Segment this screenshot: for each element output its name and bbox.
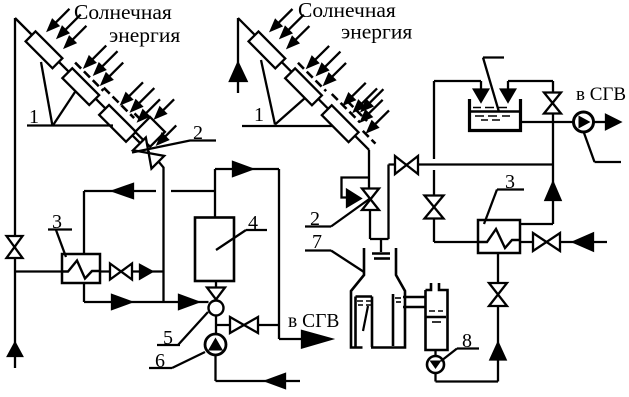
wire: pump outlet bbox=[593, 121, 607, 123]
valve (on y=164.5) bbox=[395, 156, 418, 174]
solar collector 1 (right) bbox=[232, 0, 407, 156]
svg-text:энергия: энергия bbox=[341, 20, 412, 44]
arrow to СГВ (left) bbox=[302, 331, 331, 348]
wire: open tank left feed (x=434) bbox=[434, 81, 481, 242]
glazing dashes bbox=[297, 57, 383, 144]
label: Солнечная энергия (left) bbox=[74, 0, 180, 47]
tank 7 (storage boiler) bbox=[351, 248, 405, 348]
svg-text:3: 3 bbox=[505, 171, 515, 193]
collector axis line bbox=[15, 18, 149, 152]
collector panel a bbox=[249, 32, 286, 69]
arrow up (left riser bottom) bbox=[8, 343, 22, 356]
svg-text:3: 3 bbox=[52, 211, 62, 233]
open expansion tank (top right) bbox=[470, 99, 521, 131]
wire: tank 8 to pump 8 bbox=[434, 350, 436, 356]
water marks tank 7 bbox=[357, 298, 401, 305]
ground line 1 (left) bbox=[27, 62, 113, 126]
svg-text:6: 6 bbox=[155, 350, 165, 372]
thermostatic valve 2 (right) : actuator box bbox=[342, 178, 371, 207]
collector panel b bbox=[285, 68, 322, 105]
wire: pump suction return (diagonal) bbox=[584, 132, 622, 163]
svg-text:в СГВ: в СГВ bbox=[288, 311, 339, 332]
label 5 with pointer bbox=[157, 312, 208, 349]
valve (riser x=553) bbox=[544, 93, 561, 114]
wire: HX outlet right bbox=[100, 270, 164, 272]
arrow to СГВ (right) bbox=[606, 115, 620, 129]
flow arrow right (y=169) bbox=[233, 162, 252, 176]
heat exchanger 3 (left) bbox=[62, 254, 100, 283]
flow arrow left (on y=191) bbox=[113, 184, 133, 198]
label 3 (right) with pointer bbox=[484, 171, 524, 224]
ground line 1 (right) bbox=[242, 60, 333, 126]
wire: pump 6 return line bbox=[216, 355, 301, 381]
solar collector 1 (left) bbox=[8, 0, 198, 169]
label 3 (left) with pointer bbox=[48, 211, 72, 257]
label 6 with pointer bbox=[149, 350, 205, 372]
valve (left riser) bbox=[7, 236, 23, 258]
label 8 with pointer bbox=[441, 330, 479, 361]
wire: tank 4 top loop (y=169) bbox=[215, 169, 279, 218]
arrow down (tank inlet left) bbox=[474, 90, 488, 102]
collector panel c bbox=[99, 105, 136, 142]
water marks tank 8 bbox=[429, 311, 443, 322]
collector end square bbox=[135, 117, 165, 147]
flow arrow right (to mixer a) bbox=[112, 295, 131, 309]
label 2 (right) with pointer bbox=[305, 199, 370, 231]
svg-text:в СГВ: в СГВ bbox=[576, 84, 626, 105]
svg-text:2: 2 bbox=[193, 122, 203, 144]
valve 2 bowtie (left collector outlet) bbox=[133, 138, 164, 169]
wire: open tank inlet right drop bbox=[507, 81, 509, 92]
svg-text:1: 1 bbox=[254, 104, 264, 126]
wire: HX to riser top connection bbox=[508, 81, 553, 224]
wire: open tank inlet left drop bbox=[480, 81, 482, 92]
wire: left riser pipe bbox=[15, 18, 62, 368]
wire: valve 2 to tank 7 junction bbox=[370, 210, 389, 252]
wire: СГВ riser (x=279) bbox=[279, 169, 303, 339]
arrow up (riser x=553) bbox=[546, 183, 561, 201]
tank 4 bbox=[195, 218, 234, 282]
pump 8 bbox=[427, 356, 444, 373]
sun arrows bbox=[43, 0, 191, 147]
label 7 with pointer bbox=[305, 231, 364, 272]
wire: collector outlet downpipe (right) bbox=[368, 150, 370, 188]
valve (below HX right) bbox=[489, 283, 507, 306]
funnel below tank 4 bbox=[207, 281, 225, 300]
collector axis line bbox=[238, 18, 369, 150]
svg-text:2: 2 bbox=[310, 208, 320, 230]
svg-text:Солнечная: Солнечная bbox=[74, 0, 172, 24]
svg-text:5: 5 bbox=[163, 327, 173, 349]
heat exchanger 3 (right) bbox=[478, 220, 520, 253]
wire: horizontal line y=164.5 bbox=[389, 163, 554, 165]
svg-text:энергия: энергия bbox=[109, 23, 180, 47]
flow arrow right (HX outlet) bbox=[140, 265, 152, 279]
glazing dashes bbox=[75, 58, 147, 130]
pump 6 bbox=[205, 334, 226, 355]
label: Солнечная энергия (right) bbox=[298, 0, 412, 44]
mixer circle 5 bbox=[209, 301, 224, 316]
flow arrow right (to mixer b) bbox=[179, 295, 198, 309]
wire: mixer to pump bbox=[215, 316, 217, 335]
return arrow (left, pointing left) bbox=[266, 374, 285, 388]
water marks open tank bbox=[473, 108, 510, 121]
tank 8 (small vessel) bbox=[426, 283, 448, 350]
valve (cold feed to HX) bbox=[425, 196, 444, 219]
wire: riser to mixing valve line bbox=[387, 165, 389, 240]
pump (to СГВ right) bbox=[574, 112, 594, 132]
valve (HX outlet) bbox=[110, 264, 132, 280]
wire: riser to HX top bbox=[83, 191, 85, 254]
svg-text:8: 8 bbox=[462, 330, 472, 352]
wire: mixer outlet branch (y=325) bbox=[216, 324, 279, 326]
wire: pump 8 to HX bottom bbox=[436, 253, 499, 382]
svg-text:1: 1 bbox=[29, 106, 39, 128]
svg-text:7: 7 bbox=[312, 231, 322, 253]
label 4 with pointer bbox=[216, 212, 267, 250]
label 2 (left) with pointer bbox=[132, 122, 216, 153]
wire: right collector inlet pipe bbox=[237, 18, 239, 93]
valve (СГВ outlet left) bbox=[230, 317, 258, 333]
collector panel c bbox=[322, 105, 359, 142]
sun arrows bbox=[266, 1, 399, 135]
collector panel b bbox=[62, 68, 99, 105]
wire: tank 7 to tank 8 double link bbox=[403, 297, 426, 307]
wire: open tank outlet to pump bbox=[522, 121, 574, 123]
wire: HX bottom to mixer line bbox=[84, 283, 209, 302]
cold water dip pipe bbox=[483, 58, 504, 113]
valve + arrow (cold water inlet, far right) bbox=[520, 233, 607, 251]
arrow up (right collector inlet) bbox=[230, 63, 247, 81]
collector panel a bbox=[26, 31, 63, 68]
arrow up (HX feed) bbox=[491, 343, 506, 360]
arrow down (tank inlet right) bbox=[501, 90, 515, 102]
valve 2 bowtie (right) bbox=[362, 189, 379, 211]
wire: collector 1 downpipe bbox=[159, 162, 164, 303]
svg-text:4: 4 bbox=[248, 212, 258, 234]
wire: HX supply line (y=191) bbox=[84, 190, 215, 192]
